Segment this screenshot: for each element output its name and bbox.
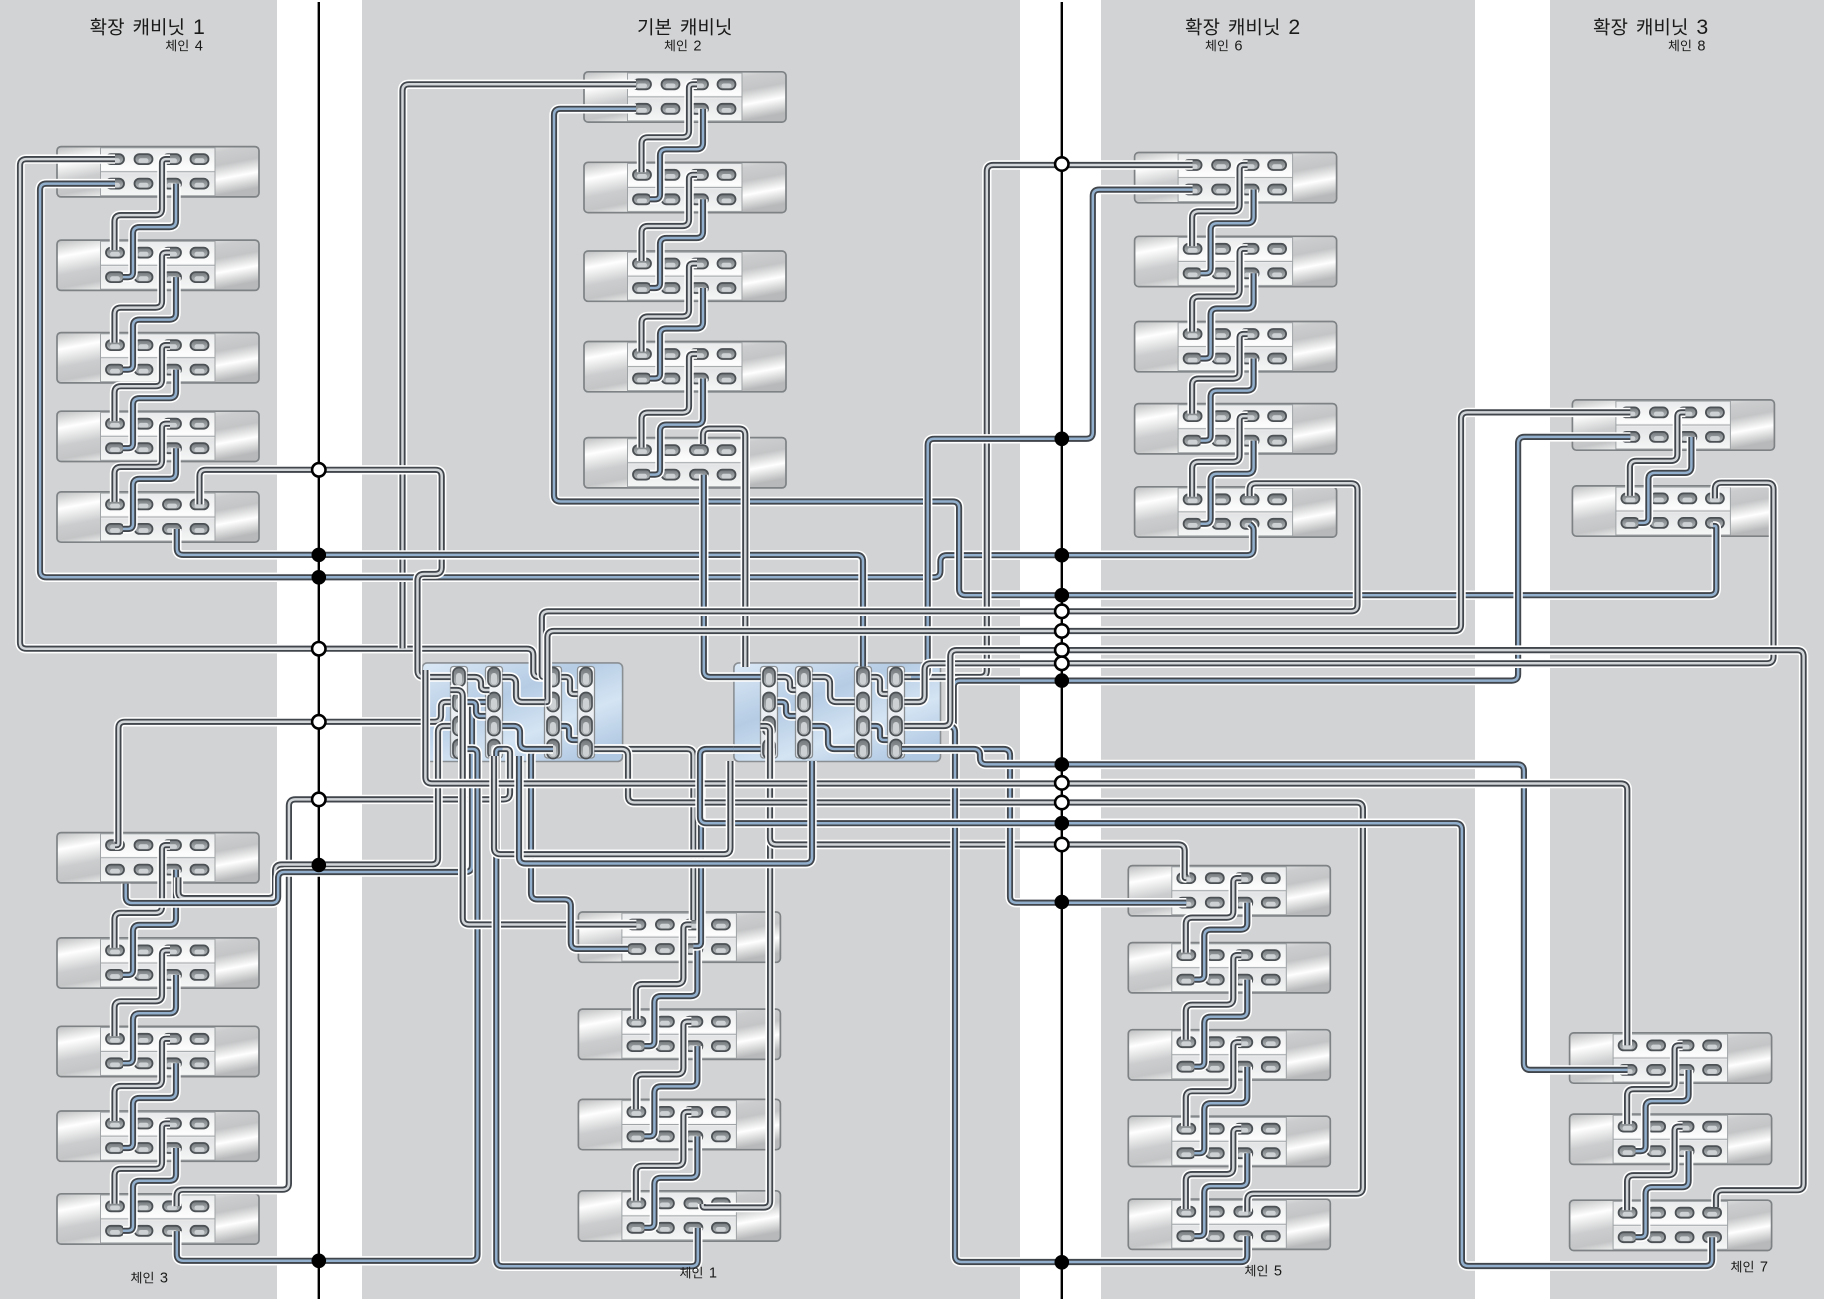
wire P1T shelf4 row1 to shelf5 row1	[115, 424, 171, 502]
wire controller hook 3	[503, 677, 545, 702]
open crossing circle on line 2 at y=631.0	[1055, 624, 1068, 637]
wire P3T shelf3 row1 to shelf4 row1	[1192, 334, 1248, 414]
wire controller hook 1	[468, 677, 490, 690]
wire chain1 shelf4 row2p3 to controller1 via y1266	[496, 749, 698, 1266]
wire chain5 shelf1 row1 from controller2 via line2 o847	[761, 726, 1187, 878]
disk shelf P3T #5	[1135, 487, 1337, 537]
junction dot on line 1 at y=865	[312, 858, 327, 873]
junction dot on line 1 at y=554.9	[312, 548, 327, 563]
disk shelf P3T #1	[1135, 153, 1337, 203]
wire P2B shelf2 row2 to shelf3 row2	[644, 1046, 697, 1136]
junction dot on line 2 at y=595.2	[1055, 588, 1070, 603]
label: chain 2	[665, 38, 702, 54]
label: chain 6	[1206, 38, 1243, 54]
disk shelf P1T #1	[57, 147, 259, 197]
wire chain7 shelf1 row1 from controller2 via line2 o783	[425, 670, 1627, 1045]
wire chain4 shelf1 row2 to chain6 shelf5 row2 via line1 f577 line2 f555	[40, 184, 1254, 578]
disk shelf P4B #1	[1570, 1033, 1772, 1083]
wire chain2 shelf1 row2 to chain8 shelf2 row2 via line2 f595	[554, 109, 1716, 595]
junction dot on line 2 at y=555.2	[1055, 548, 1070, 563]
wire chain3 shelf1 row2p1 to controller1 via y872	[126, 702, 486, 903]
wire P2B shelf3 row2 to shelf4 row2	[644, 1136, 697, 1227]
wire controller hook 11	[872, 677, 888, 694]
wire P2T shelf3 row2 to shelf4 row2	[650, 288, 703, 379]
cabinet panel: expansion cabinet 1	[0, 0, 277, 1299]
wire P1B shelf1 row1 to shelf2 row1	[115, 845, 171, 948]
wire controller hook 9	[813, 726, 855, 749]
label: expansion cabinet 1 title	[90, 15, 204, 39]
svg-text:1: 1	[709, 1266, 717, 1282]
svg-text:2: 2	[693, 38, 701, 54]
junction dot on line 1 at y=577.3	[312, 570, 327, 585]
junction dot on line 2 at y=680.6	[1055, 673, 1070, 688]
wire P3T shelf2 row1 to shelf3 row1	[1192, 249, 1248, 332]
label: chain 5	[1245, 1264, 1282, 1280]
wire P2T shelf2 row1 to shelf3 row1	[642, 175, 698, 261]
junction dot on line 1 at y=1260.8	[312, 1254, 327, 1269]
disk shelf P2B #1	[578, 912, 780, 962]
disk shelf P2T #1	[584, 72, 786, 122]
label: chain 1	[680, 1266, 717, 1282]
svg-text:5: 5	[1274, 1264, 1282, 1280]
disk shelf P1B #5	[57, 1194, 259, 1244]
wire chain1 shelf1 row1 from controller1	[451, 690, 637, 925]
wire P1T shelf1 row1 to shelf2 row1	[115, 159, 171, 250]
disk shelf P3T #4	[1135, 404, 1337, 454]
wire chain3 shelf5 row1p3 from controller1 via line1 o799	[177, 749, 510, 1206]
wire P4B shelf2 row2 to shelf3 row2	[1636, 1151, 1689, 1237]
disk shelf P4B #3	[1570, 1200, 1772, 1250]
disk shelf P2T #5	[584, 438, 786, 488]
controller head 1	[422, 663, 622, 762]
wire P1B shelf2 row1 to shelf3 row1	[115, 950, 171, 1036]
wire P1B shelf4 row2 to shelf5 row2	[123, 1148, 176, 1231]
wire chain1 shelf1 row2p3 up to controller2	[693, 749, 760, 946]
junction dot on line 2 at y=823.2	[1055, 816, 1070, 831]
vertical divider line 2	[1061, 2, 1063, 1299]
wire controller1 to controller2 underpass y863 blue	[519, 756, 812, 864]
disk shelf P3T #3	[1135, 322, 1337, 372]
open crossing circle on line 1 at y=648.7	[312, 642, 325, 655]
junction dot on line 2 at y=438.8	[1055, 432, 1070, 447]
wire controller hook 2	[468, 702, 486, 716]
wire chain3 shelf1 row1 from controller1 via line1 o722	[115, 702, 451, 845]
open crossing circle on line 1 at y=469.8	[312, 463, 325, 476]
wire P1T shelf2 row2 to shelf3 row2	[123, 277, 176, 370]
wire P1B shelf4 row1 to shelf5 row1	[115, 1124, 171, 1204]
wire P3B shelf2 row1 to shelf3 row1	[1186, 955, 1242, 1040]
wire P1T shelf3 row1 to shelf4 row1	[115, 345, 171, 421]
cabinet panel: expansion cabinet 2	[1101, 0, 1475, 1299]
wire chain2 shelf5 row1p3 bracket from controller2	[703, 429, 745, 667]
label: chain 3	[131, 1271, 168, 1287]
disk shelf P1B #1	[57, 833, 259, 883]
disk shelf P1T #5	[57, 492, 259, 542]
svg-text:8: 8	[1697, 38, 1705, 54]
wire P4T shelf1 row1 to shelf2 row1	[1630, 412, 1686, 496]
controller head 2	[734, 663, 941, 762]
wire chain3 shelf1 row2p3 to controller1 via line1 f866	[178, 726, 450, 898]
wire chain4 shelf5 row1p4 to controller1 via line1 o470	[200, 470, 451, 677]
open crossing circle on line 1 at y=799.4	[312, 793, 325, 806]
label: chain 4	[166, 38, 203, 54]
wire controller hook 5	[562, 677, 578, 694]
svg-text:7: 7	[1760, 1260, 1768, 1276]
label: chain 8	[1669, 38, 1706, 54]
wire controller hook 12	[872, 726, 888, 740]
wire P1B shelf3 row2 to shelf4 row2	[123, 1063, 176, 1148]
wire chain7 shelf1 row2 from controller2 via line2 f764	[905, 749, 1628, 1070]
wire P3T shelf3 row2 to shelf4 row2	[1201, 359, 1254, 441]
wire chain3 shelf5 row2p3 to controller1 via line1 f1261	[177, 749, 478, 1261]
disk shelf P3B #2	[1128, 943, 1330, 993]
open crossing circle on line 1 at y=721.8	[312, 715, 325, 728]
open crossing circle on line 2 at y=663.3	[1055, 657, 1068, 670]
disk shelf P4T #2	[1572, 486, 1774, 536]
wire P1B shelf3 row1 to shelf4 row1	[115, 1039, 171, 1121]
wire P4B shelf1 row1 to shelf2 row1	[1627, 1045, 1683, 1124]
cabinet panel: expansion cabinet 3	[1550, 0, 1824, 1299]
wire chain6 shelf1 row2 to controller2 via line2 f439	[911, 190, 1193, 677]
wire controller hook 6	[562, 726, 578, 740]
wire chain7 shelf3 row2p4 to controller2 via line2 f822	[700, 749, 1712, 1266]
disk shelf P4B #2	[1570, 1114, 1772, 1164]
cabinet panel: base cabinet	[362, 0, 1020, 1299]
label: base cabinet title	[638, 18, 731, 35]
svg-text:3: 3	[160, 1271, 168, 1287]
svg-text:3: 3	[1696, 15, 1708, 39]
wire P1T shelf4 row2 to shelf5 row2	[123, 448, 176, 529]
wire P3T shelf1 row1 to shelf2 row1	[1192, 165, 1248, 246]
disk shelf P2T #2	[584, 162, 786, 212]
junction dot on line 2 at y=764.4	[1055, 757, 1070, 772]
open crossing circle on line 2 at y=164	[1055, 157, 1068, 170]
wire P2B shelf1 row1 to shelf2 row1	[636, 925, 692, 1020]
open crossing circle on line 2 at y=844.5	[1055, 838, 1068, 851]
label: expansion cabinet 2 title	[1186, 15, 1300, 39]
wire P3B shelf4 row1 to shelf5 row1	[1186, 1129, 1242, 1209]
wire P3B shelf3 row1 to shelf4 row1	[1186, 1042, 1242, 1126]
disk shelf P3B #1	[1128, 866, 1330, 916]
wire P2B shelf2 row1 to shelf3 row1	[636, 1022, 692, 1110]
wire P3T shelf2 row2 to shelf3 row2	[1201, 273, 1254, 358]
disk shelf P4T #1	[1572, 400, 1774, 450]
wire P4B shelf1 row2 to shelf2 row2	[1636, 1070, 1689, 1151]
wire P4T shelf1 row2 to shelf2 row2	[1638, 437, 1691, 523]
wire chain1 shelf1 row2 loop from controller1	[531, 749, 628, 949]
wire P3T shelf4 row1 to shelf5 row1	[1192, 416, 1248, 497]
disk shelf P1T #3	[57, 333, 259, 383]
wire chain5 shelf1 row2 from controller2 via line2 f901	[902, 749, 1186, 903]
wire chain8 shelf2 row1p4 to controller2 via line2 o663	[905, 483, 1774, 702]
wire P4B shelf2 row1 to shelf3 row1	[1627, 1127, 1683, 1211]
disk shelf P2T #4	[584, 342, 786, 392]
disk shelf P2T #3	[584, 251, 786, 301]
wire P2T shelf1 row1 to shelf2 row1	[642, 84, 698, 172]
wire P3B shelf4 row2 to shelf5 row2	[1194, 1153, 1247, 1236]
wire chain7 shelf3 row1p4 from controller2 via line2 o650	[905, 650, 1804, 1207]
wire chain1 shelf4 row1p3 from controller2 via x770	[703, 749, 771, 1208]
svg-text:2: 2	[1288, 15, 1300, 39]
wire chain4 shelf1 row1 to controller1 via line1 o649	[20, 159, 545, 677]
wire P2T shelf4 row1 to shelf5 row1	[642, 354, 698, 448]
open crossing circle on line 2 at y=782.9	[1055, 776, 1068, 789]
junction dot on line 2 at y=902	[1055, 895, 1070, 910]
wire chain5 shelf5 row2p3 to controller2 via line2 f1263	[911, 726, 1247, 1262]
wire P2B shelf1 row2 to shelf2 row2	[644, 949, 697, 1046]
open crossing circle on line 2 at y=802.5	[1055, 796, 1068, 809]
open crossing circle on line 2 at y=650.1	[1055, 643, 1068, 656]
wire chain5 shelf5 row1p3 from controller1 via line2 o802	[598, 749, 1363, 1212]
wire P2B shelf3 row1 to shelf4 row1	[636, 1112, 692, 1201]
svg-text:1: 1	[193, 15, 205, 39]
wire P3T shelf4 row2 to shelf5 row2	[1201, 441, 1254, 524]
wire controller1 to controller2 underpass y854	[494, 756, 730, 854]
wire P2T shelf1 row2 to shelf2 row2	[650, 109, 703, 200]
wire controller hook 4	[503, 726, 545, 749]
disk shelf P1B #2	[57, 938, 259, 988]
wire chain6 shelf1 row1 from controller2 via line2 o162	[905, 165, 1193, 677]
disk shelf P3T #2	[1135, 236, 1337, 286]
junction dot on line 2 at y=1262.3	[1055, 1255, 1070, 1270]
wire P1T shelf3 row2 to shelf4 row2	[123, 370, 176, 449]
wire P1T shelf2 row1 to shelf3 row1	[115, 253, 171, 343]
disk shelf P1T #4	[57, 411, 259, 461]
svg-text:4: 4	[195, 38, 203, 54]
wire P3B shelf3 row2 to shelf4 row2	[1194, 1067, 1247, 1154]
wire chain4 shelf5 row2p3 to controller2 via line1 f554	[177, 529, 863, 667]
wire P1B shelf1 row2 to shelf2 row2	[123, 870, 176, 975]
vertical divider line 1	[318, 2, 320, 1299]
wire chain2 shelf5 row2p3 down to controller2	[704, 475, 761, 677]
wire P2T shelf2 row2 to shelf3 row2	[650, 199, 703, 288]
wire P1T shelf1 row2 to shelf2 row2	[123, 184, 176, 278]
wire P1B shelf2 row2 to shelf3 row2	[123, 975, 176, 1063]
disk shelf P1T #2	[57, 240, 259, 290]
disk shelf P1B #3	[57, 1026, 259, 1076]
wire chain6 shelf5 row1p3 to controller1 via line2 o611	[542, 483, 1358, 677]
disk shelf P1B #4	[57, 1111, 259, 1161]
wire controller hook 10	[813, 677, 855, 702]
wire controller hook 7	[778, 677, 796, 690]
svg-text:6: 6	[1234, 38, 1242, 54]
wire P3B shelf1 row1 to shelf2 row1	[1186, 878, 1242, 953]
label: chain 7	[1731, 1260, 1768, 1276]
disk shelf P3B #3	[1128, 1030, 1330, 1080]
label: expansion cabinet 3 title	[1594, 15, 1708, 39]
wire P2T shelf3 row1 to shelf4 row1	[642, 264, 698, 352]
disk shelf P2B #3	[578, 1099, 780, 1149]
wire chain8 shelf1 row2 to controller2 via line2 f680	[905, 437, 1631, 749]
disk shelf P2B #2	[578, 1009, 780, 1059]
disk shelf P2B #4	[578, 1191, 780, 1241]
wire P3B shelf1 row2 to shelf2 row2	[1194, 903, 1247, 980]
disk shelf P3B #5	[1128, 1199, 1330, 1249]
wire controller hook 8	[778, 702, 796, 716]
wire P2T shelf4 row2 to shelf5 row2	[650, 379, 703, 475]
wire P3B shelf2 row2 to shelf3 row2	[1194, 980, 1247, 1067]
disk shelf P3B #4	[1128, 1116, 1330, 1166]
wire P3T shelf1 row2 to shelf2 row2	[1201, 190, 1254, 274]
wire chain2 shelf1 row1 down to junction y648	[403, 84, 637, 648]
wire chain1 shelf1 row1p3 up to controller1	[595, 749, 694, 920]
wire chain8 shelf1 row1 to controller1 via line2 o631	[546, 412, 1631, 702]
open crossing circle on line 2 at y=611.3	[1055, 605, 1068, 618]
